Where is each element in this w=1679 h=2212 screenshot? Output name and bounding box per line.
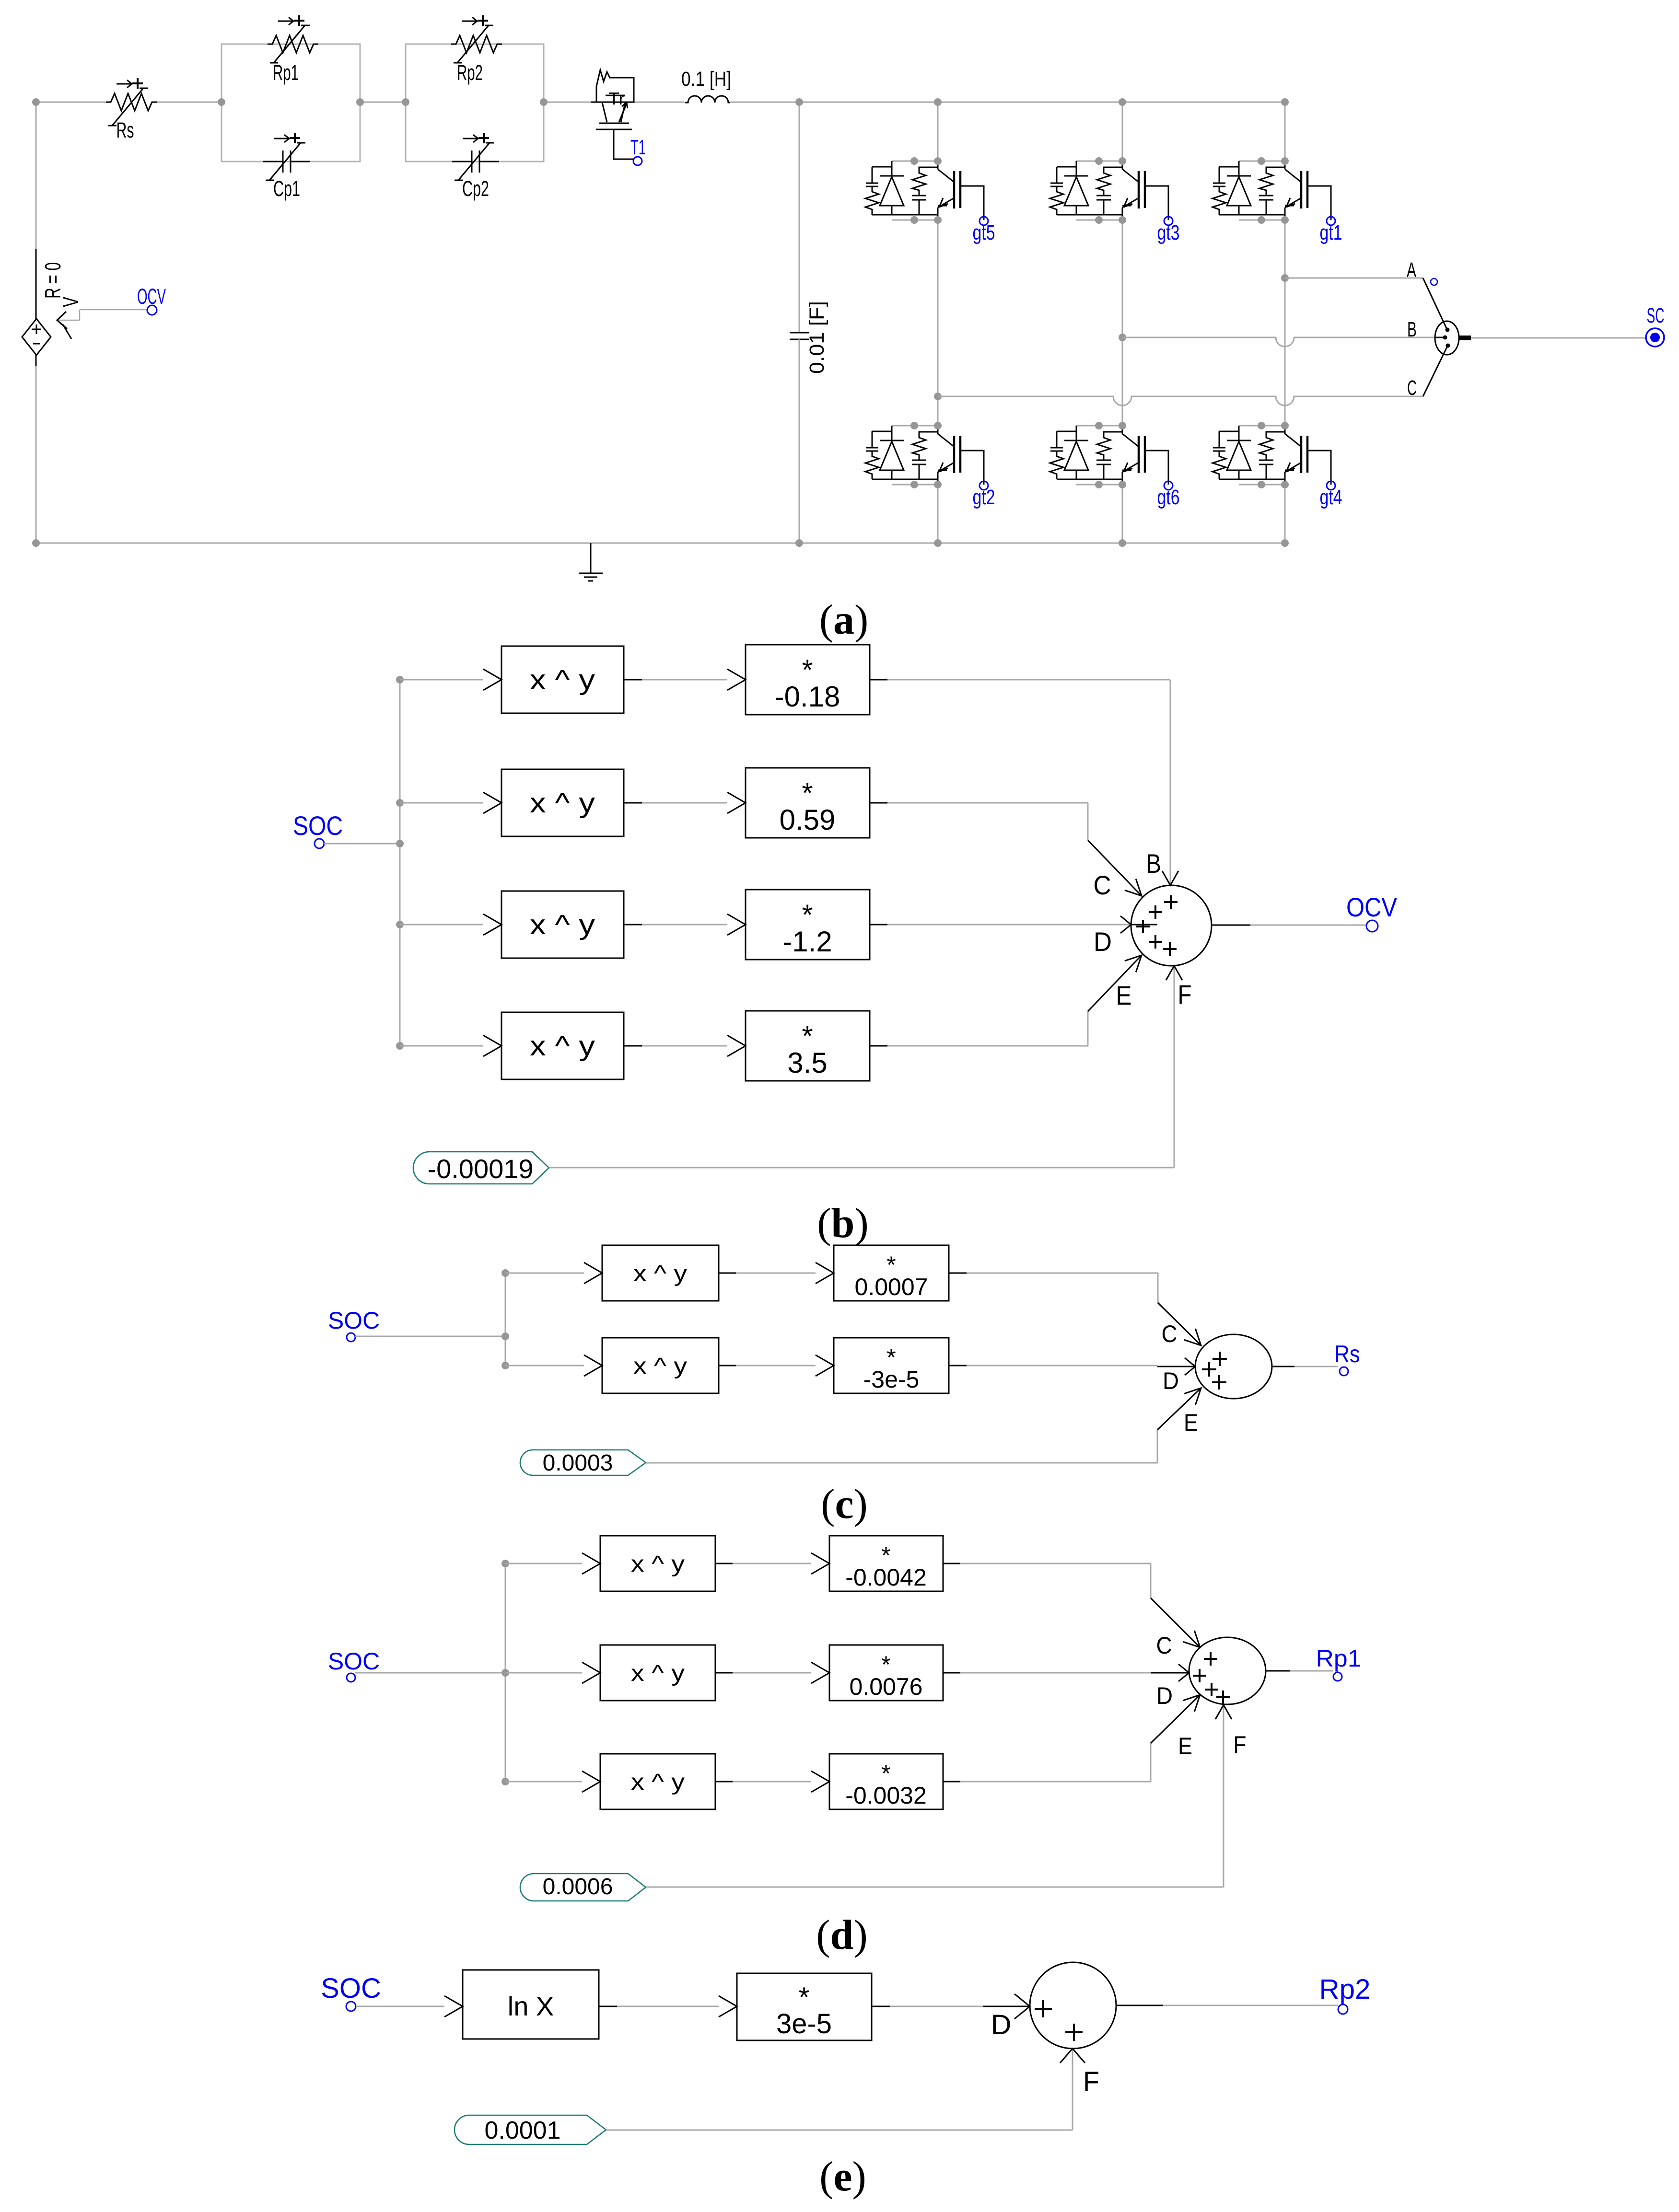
svg-text:x ^ y: x ^ y: [633, 1261, 687, 1286]
svg-text:Rp2: Rp2: [1319, 1974, 1371, 2005]
svg-text:D: D: [1094, 926, 1112, 957]
svg-text:0.59: 0.59: [780, 804, 836, 836]
svg-text:-0.0042: -0.0042: [845, 1564, 927, 1591]
svg-text:ln X: ln X: [508, 1991, 554, 2021]
svg-text:0.0003: 0.0003: [543, 1450, 613, 1476]
svg-text:gt6: gt6: [1157, 486, 1180, 509]
svg-text:gt2: gt2: [973, 486, 995, 509]
svg-text:F: F: [1178, 979, 1192, 1009]
svg-text:x ^ y: x ^ y: [530, 664, 595, 695]
svg-text:(a): (a): [819, 597, 869, 643]
svg-text:-0.00019: -0.00019: [427, 1154, 533, 1184]
svg-text:C: C: [1162, 1320, 1178, 1347]
svg-text:SOC: SOC: [328, 1648, 380, 1675]
svg-text:gt3: gt3: [1157, 221, 1180, 244]
svg-text:B: B: [1146, 848, 1161, 879]
svg-text:C: C: [1094, 870, 1111, 900]
svg-text:Rs: Rs: [117, 118, 134, 142]
svg-text:F: F: [1234, 1731, 1247, 1758]
svg-text:x ^ y: x ^ y: [631, 1552, 685, 1577]
svg-text:(c): (c): [821, 1481, 868, 1528]
svg-text:E: E: [1184, 1409, 1198, 1436]
svg-text:3e-5: 3e-5: [776, 2008, 832, 2039]
svg-text:C: C: [1156, 1632, 1172, 1659]
svg-text:SOC: SOC: [321, 1973, 381, 2004]
svg-text:D: D: [1156, 1682, 1173, 1709]
svg-text:R = 0: R = 0: [40, 262, 65, 299]
svg-text:F: F: [1083, 2066, 1099, 2097]
svg-text:gt1: gt1: [1320, 221, 1342, 244]
svg-text:D: D: [991, 2009, 1012, 2040]
svg-text:0.1 [H]: 0.1 [H]: [681, 68, 731, 91]
svg-text:D: D: [1163, 1367, 1179, 1394]
svg-text:0.0001: 0.0001: [484, 2117, 560, 2144]
svg-text:-0.0032: -0.0032: [845, 1782, 927, 1809]
svg-text:Rs: Rs: [1335, 1341, 1360, 1367]
svg-text:T1: T1: [630, 136, 646, 159]
svg-text:-1.2: -1.2: [782, 926, 832, 958]
svg-text:x ^ y: x ^ y: [530, 1031, 595, 1062]
svg-text:E: E: [1116, 980, 1132, 1010]
svg-text:(d): (d): [816, 1912, 868, 1958]
svg-text:0.0007: 0.0007: [855, 1274, 928, 1300]
svg-text:0.01 [F]: 0.01 [F]: [805, 301, 828, 374]
svg-text:gt4: gt4: [1320, 486, 1342, 509]
svg-text:0.0076: 0.0076: [850, 1673, 923, 1700]
svg-text:x ^ y: x ^ y: [530, 909, 595, 940]
svg-text:x ^ y: x ^ y: [633, 1354, 687, 1379]
svg-text:-3e-5: -3e-5: [863, 1366, 920, 1393]
svg-text:Rp1: Rp1: [273, 60, 299, 85]
svg-text:B: B: [1407, 318, 1417, 341]
svg-text:gt5: gt5: [973, 221, 995, 244]
svg-text:Cp1: Cp1: [273, 176, 300, 201]
svg-text:3.5: 3.5: [787, 1047, 827, 1079]
svg-text:SOC: SOC: [293, 811, 343, 841]
svg-text:SOC: SOC: [328, 1307, 380, 1334]
svg-text:A: A: [1407, 258, 1416, 282]
svg-text:Cp2: Cp2: [462, 176, 489, 201]
svg-text:x ^ y: x ^ y: [631, 1770, 685, 1795]
svg-text:(b): (b): [817, 1200, 869, 1247]
svg-text:0.0006: 0.0006: [543, 1874, 613, 1899]
svg-text:(e): (e): [819, 2154, 866, 2200]
svg-text:x ^ y: x ^ y: [530, 788, 595, 819]
svg-text:-0.18: -0.18: [775, 681, 840, 713]
svg-text:SC: SC: [1647, 304, 1665, 327]
svg-text:V: V: [58, 297, 83, 307]
svg-text:E: E: [1178, 1733, 1192, 1760]
svg-text:x ^ y: x ^ y: [631, 1661, 685, 1686]
svg-text:Rp2: Rp2: [457, 60, 483, 85]
svg-text:OCV: OCV: [1346, 892, 1398, 922]
svg-text:C: C: [1407, 376, 1417, 400]
svg-text:Rp1: Rp1: [1316, 1645, 1362, 1672]
